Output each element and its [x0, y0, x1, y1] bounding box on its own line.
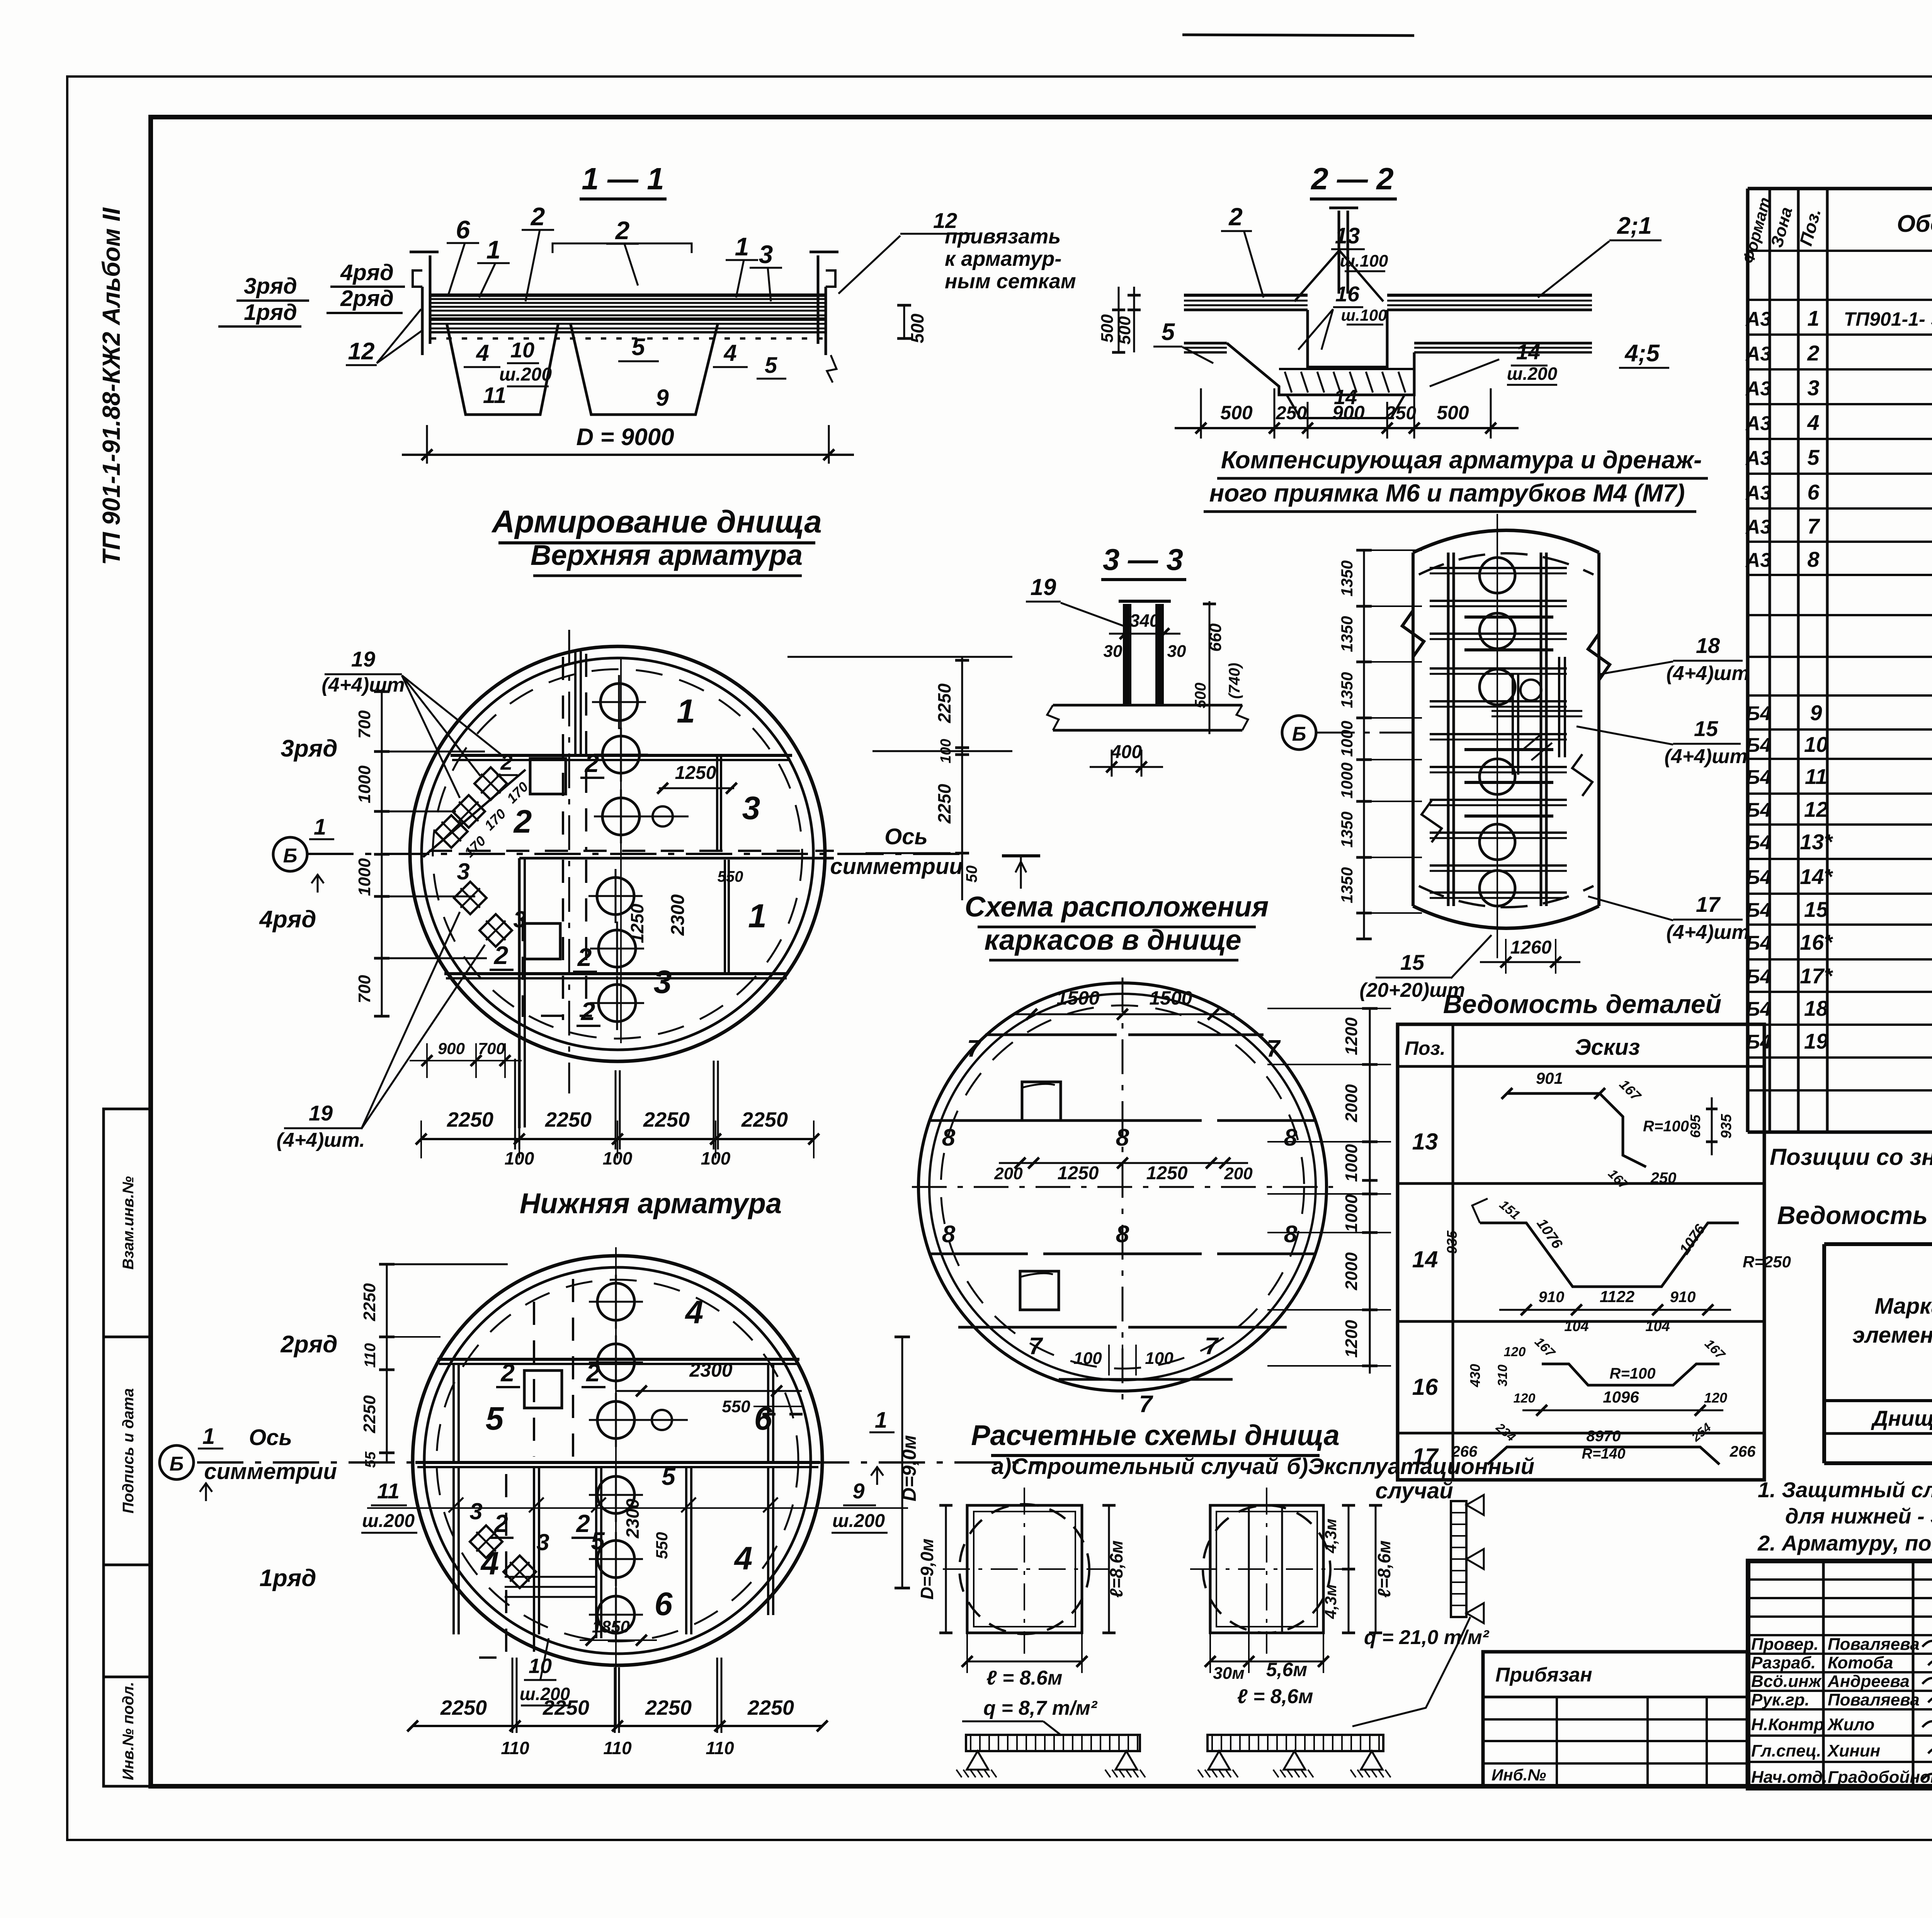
- svg-text:1500: 1500: [1149, 987, 1192, 1009]
- frame scheme bar bottom 7: [1059, 1378, 1233, 1381]
- svg-text:3: 3: [654, 964, 672, 1000]
- svg-text:550: 550: [718, 868, 743, 885]
- svg-text:1850: 1850: [592, 1617, 630, 1636]
- svg-text:q = 21,0 т/м²: q = 21,0 т/м²: [1364, 1626, 1490, 1649]
- svg-text:А3: А3: [1745, 412, 1772, 435]
- svg-text:2: 2: [1228, 203, 1243, 231]
- svg-text:1350: 1350: [1338, 867, 1356, 903]
- svg-text:10: 10: [510, 338, 534, 362]
- svg-text:910: 910: [1670, 1289, 1696, 1306]
- svg-text:R=100: R=100: [1610, 1365, 1656, 1382]
- svg-text:901: 901: [1536, 1069, 1563, 1087]
- svg-text:12: 12: [1804, 797, 1828, 821]
- svg-text:1. Защитный слой бетона для: 1. Защитный слой бетона для верхней арма…: [1758, 1478, 1932, 1502]
- upper plan left dim chain: [381, 692, 383, 1016]
- svg-text:2250: 2250: [543, 1696, 589, 1719]
- lower plan top chord double: [437, 1358, 799, 1361]
- svg-text:1: 1: [748, 898, 767, 935]
- svg-text:16: 16: [1412, 1374, 1438, 1400]
- frame scheme dashed circle: [941, 1005, 1304, 1369]
- svg-text:Б4: Б4: [1746, 766, 1771, 789]
- section 2-2 dims 500 250 900 250 500: [1200, 388, 1202, 439]
- design scheme a square: [967, 1505, 1082, 1633]
- svg-text:D=9,0м: D=9,0м: [898, 1435, 920, 1501]
- frame scheme outer circle: [918, 983, 1327, 1391]
- svg-text:Расчетные схемы днища: Расчетные схемы днища: [971, 1419, 1340, 1451]
- svg-text:ш.100: ш.100: [1341, 306, 1387, 324]
- svg-text:3ряд: 3ряд: [244, 274, 297, 299]
- svg-text:1122: 1122: [1600, 1287, 1634, 1306]
- svg-text:3: 3: [457, 859, 469, 884]
- section 1-1 diameter dimension: [426, 425, 428, 464]
- svg-text:Рук.гр.: Рук.гр.: [1751, 1690, 1810, 1709]
- signature squiggles: [1922, 1641, 1932, 1656]
- svg-text:2: 2: [530, 202, 545, 231]
- svg-text:500: 500: [1192, 683, 1209, 709]
- svg-text:19: 19: [1031, 574, 1056, 600]
- svg-text:10: 10: [529, 1654, 552, 1678]
- svg-text:9: 9: [1810, 701, 1822, 725]
- svg-text:4: 4: [685, 1294, 704, 1330]
- section 3-3 right dims: [1209, 601, 1211, 734]
- svg-text:Всö.инж: Всö.инж: [1751, 1672, 1822, 1691]
- svg-text:2: 2: [615, 216, 630, 245]
- svg-text:Ведомость деталей: Ведомость деталей: [1443, 990, 1721, 1019]
- svg-text:Жило: Жило: [1827, 1715, 1874, 1734]
- svg-text:(4+4)шт: (4+4)шт: [1666, 921, 1749, 944]
- lower plan inner circle: [424, 1267, 811, 1654]
- svg-text:18: 18: [1804, 996, 1828, 1020]
- svg-text:200: 200: [1224, 1164, 1253, 1183]
- svg-text:(4+4)шт: (4+4)шт: [1666, 662, 1749, 685]
- upper plan left vertical bars lower: [518, 858, 521, 1128]
- svg-text:16: 16: [1335, 282, 1360, 306]
- svg-text:11: 11: [483, 383, 506, 408]
- svg-text:Позиции со знаком: Позиции со знаком: [1770, 1144, 1932, 1170]
- svg-text:Б4: Б4: [1746, 702, 1771, 725]
- section 1-1 right wall: [825, 287, 827, 355]
- svg-text:8: 8: [942, 1124, 956, 1151]
- design scheme b beam: [1207, 1735, 1383, 1751]
- svg-text:14*: 14*: [1800, 864, 1833, 889]
- svg-text:55: 55: [362, 1451, 379, 1468]
- lower plan datum circle B: [160, 1445, 194, 1479]
- svg-text:8: 8: [1807, 547, 1820, 571]
- small tick mark above scheme title: [1002, 854, 1040, 857]
- frame scheme right dim chain: [1369, 1008, 1371, 1374]
- svg-text:500: 500: [907, 313, 927, 343]
- svg-text:Верхняя арматура: Верхняя арматура: [531, 539, 803, 571]
- svg-text:15: 15: [1694, 716, 1718, 741]
- svg-text:3: 3: [536, 1529, 549, 1555]
- svg-text:D = 9000: D = 9000: [576, 424, 674, 451]
- view B hole circles: [1480, 558, 1515, 593]
- svg-text:Ведомость расхода стали на эле: Ведомость расхода стали на элемент, кг: [1777, 1201, 1932, 1229]
- section 2-2 vertical post: [1338, 211, 1340, 294]
- svg-text:(4+4)шт: (4+4)шт: [1664, 745, 1747, 768]
- svg-text:2250: 2250: [545, 1108, 592, 1131]
- svg-text:660: 660: [1206, 623, 1225, 652]
- svg-text:Армирование днища: Армирование днища: [491, 504, 822, 539]
- svg-text:1250: 1250: [1058, 1163, 1099, 1183]
- upper plan diagonal frame cluster: [474, 767, 507, 800]
- svg-text:4: 4: [1807, 410, 1819, 435]
- svg-text:12: 12: [933, 208, 957, 233]
- svg-text:8970: 8970: [1587, 1428, 1621, 1445]
- svg-text:2250: 2250: [440, 1696, 487, 1719]
- svg-text:А3: А3: [1745, 308, 1772, 330]
- svg-text:Б4: Б4: [1746, 966, 1771, 988]
- svg-text:Ось: Ось: [884, 824, 928, 849]
- svg-text:17: 17: [1696, 892, 1721, 916]
- svg-text:Б4: Б4: [1746, 899, 1771, 922]
- svg-text:9: 9: [852, 1479, 864, 1503]
- svg-text:500: 500: [1437, 402, 1469, 423]
- svg-text:4ряд: 4ряд: [340, 260, 394, 285]
- svg-text:Б4: Б4: [1746, 998, 1771, 1020]
- svg-text:910: 910: [1539, 1289, 1565, 1306]
- view B horizontal rebar groups: [1430, 567, 1567, 569]
- svg-text:1350: 1350: [1338, 672, 1356, 708]
- svg-text:q = 8,7 т/м²: q = 8,7 т/м²: [983, 1697, 1098, 1719]
- lower plan small square: [524, 1370, 562, 1408]
- svg-text:110: 110: [706, 1738, 734, 1758]
- upper plan bottom extension lines: [514, 1059, 516, 1149]
- side ladder element: [1451, 1501, 1466, 1617]
- svg-text:а)Строительный случай: а)Строительный случай: [992, 1454, 1279, 1479]
- svg-text:4;5: 4;5: [1624, 340, 1660, 367]
- lower plan vertical bars above axis: [452, 1364, 455, 1462]
- svg-text:2;1: 2;1: [1617, 213, 1652, 239]
- design scheme a dims: [945, 1505, 947, 1633]
- svg-text:Б4: Б4: [1746, 831, 1771, 854]
- svg-text:Гл.спец.: Гл.спец.: [1751, 1741, 1821, 1760]
- svg-text:А3: А3: [1745, 377, 1772, 400]
- svg-text:каркасов в днище: каркасов в днище: [984, 924, 1241, 956]
- svg-text:500: 500: [1098, 314, 1117, 343]
- svg-text:8: 8: [1284, 1124, 1298, 1151]
- svg-text:Градобойнов: Градобойнов: [1828, 1768, 1932, 1787]
- design scheme a circle: [959, 1504, 1089, 1634]
- upper reinforcement plan outer circle: [410, 646, 825, 1061]
- svg-text:2250: 2250: [934, 683, 954, 723]
- svg-text:Поваляева: Поваляева: [1828, 1635, 1920, 1654]
- svg-text:550: 550: [722, 1397, 750, 1416]
- svg-text:Хинин: Хинин: [1827, 1741, 1880, 1760]
- svg-text:Б4: Б4: [1746, 866, 1771, 889]
- svg-text:1350: 1350: [1338, 560, 1356, 596]
- svg-text:2: 2: [500, 1359, 515, 1387]
- upper plan axis of symmetry line: [307, 853, 966, 855]
- svg-text:7: 7: [1807, 514, 1820, 538]
- svg-text:2300: 2300: [668, 894, 688, 936]
- svg-text:1: 1: [202, 1424, 215, 1449]
- view B outer shell top arc: [1413, 531, 1599, 553]
- svg-text:250: 250: [1385, 403, 1416, 423]
- svg-text:Компенсирующая арматура и др: Компенсирующая арматура и дренаж-: [1221, 446, 1702, 474]
- svg-text:935: 935: [1444, 1230, 1460, 1254]
- svg-text:430: 430: [1467, 1364, 1483, 1387]
- svg-text:ш.200: ш.200: [499, 364, 552, 385]
- svg-text:13*: 13*: [1800, 830, 1833, 854]
- svg-text:ш.200: ш.200: [362, 1511, 415, 1531]
- svg-text:2250: 2250: [643, 1108, 690, 1131]
- svg-text:Инв.№ подл.: Инв.№ подл.: [120, 1682, 137, 1780]
- svg-text:6: 6: [1807, 480, 1820, 504]
- svg-text:ного приямка М6 и патрубко: ного приямка М6 и патрубков М4 (М7): [1209, 479, 1685, 507]
- svg-text:1000: 1000: [1338, 721, 1356, 757]
- svg-text:1200: 1200: [1342, 1017, 1361, 1055]
- svg-text:100: 100: [603, 1148, 633, 1168]
- upper plan top vertical bars: [574, 651, 577, 757]
- svg-text:700: 700: [355, 710, 374, 739]
- svg-text:1: 1: [314, 814, 326, 840]
- section 3-3 top dims 30 340 30: [1109, 633, 1180, 635]
- svg-text:3: 3: [742, 790, 760, 826]
- svg-text:Обозначение: Обозначение: [1897, 211, 1932, 237]
- svg-text:2: 2: [576, 1510, 590, 1537]
- svg-text:1350: 1350: [1338, 616, 1356, 652]
- svg-text:15: 15: [1804, 897, 1828, 922]
- lower plan axis chord double: [415, 1461, 820, 1464]
- svg-text:8: 8: [942, 1221, 956, 1248]
- section 2-2 lower band: [1184, 342, 1227, 345]
- lower plan vertical stirrup bars below axis: [452, 1467, 455, 1634]
- svg-text:б)Эксплуатационный: б)Эксплуатационный: [1287, 1454, 1534, 1479]
- svg-text:4: 4: [723, 340, 736, 366]
- svg-text:11: 11: [377, 1479, 400, 1503]
- svg-text:1250: 1250: [1146, 1163, 1188, 1183]
- svg-text:2ряд: 2ряд: [340, 286, 394, 311]
- svg-text:13: 13: [1335, 223, 1360, 248]
- svg-text:Б: Б: [1292, 723, 1306, 745]
- svg-text:30м: 30м: [1213, 1664, 1245, 1683]
- frame scheme dim 100 100 bottom: [1108, 1345, 1110, 1376]
- design scheme b supports: [1208, 1751, 1230, 1770]
- svg-text:2250: 2250: [645, 1696, 692, 1719]
- lower plan diamonds: [470, 1525, 502, 1558]
- view B outer shell bottom arc: [1413, 906, 1599, 928]
- lower plan hole circles: [597, 1283, 634, 1320]
- svg-text:4,3м: 4,3м: [1321, 1584, 1340, 1619]
- svg-text:110: 110: [501, 1738, 529, 1758]
- title block outline: [1748, 1561, 1932, 1788]
- svg-text:1350: 1350: [1338, 811, 1356, 847]
- svg-text:120: 120: [1704, 1390, 1727, 1406]
- svg-text:1ряд: 1ряд: [244, 300, 297, 325]
- svg-text:Котоба: Котоба: [1828, 1653, 1893, 1672]
- svg-text:3: 3: [1807, 376, 1819, 400]
- svg-text:4: 4: [476, 340, 489, 366]
- svg-text:1500: 1500: [1056, 987, 1099, 1009]
- svg-text:1260: 1260: [1510, 937, 1552, 958]
- svg-text:Б4: Б4: [1746, 932, 1771, 954]
- svg-text:1: 1: [735, 232, 749, 261]
- svg-text:2: 2: [1807, 341, 1819, 365]
- svg-text:ℓ=8,6м: ℓ=8,6м: [1374, 1541, 1394, 1598]
- svg-text:100: 100: [1145, 1349, 1173, 1368]
- lower plan axis line: [197, 1461, 1043, 1464]
- svg-text:13: 13: [1412, 1129, 1438, 1155]
- svg-text:10: 10: [1804, 732, 1828, 757]
- svg-text:1000: 1000: [355, 858, 374, 896]
- svg-text:5: 5: [632, 334, 646, 360]
- svg-text:А3: А3: [1745, 482, 1772, 504]
- svg-text:5,6м: 5,6м: [1266, 1659, 1308, 1680]
- svg-text:Разраб.: Разраб.: [1751, 1653, 1816, 1672]
- svg-text:2. Арматуру, попадающую в при: 2. Арматуру, попадающую в приямки и патр…: [1757, 1531, 1932, 1555]
- svg-text:12: 12: [348, 338, 375, 365]
- svg-text:1000: 1000: [1338, 762, 1356, 798]
- design scheme a beam: [966, 1735, 1140, 1751]
- svg-text:5: 5: [1807, 445, 1820, 469]
- svg-text:2ряд: 2ряд: [280, 1331, 337, 1358]
- svg-text:2: 2: [580, 997, 595, 1025]
- section 1-1 pit trapezoid right: [570, 323, 718, 415]
- svg-text:R=100: R=100: [1643, 1118, 1689, 1135]
- svg-text:6: 6: [456, 215, 471, 244]
- svg-text:А3: А3: [1745, 516, 1772, 538]
- svg-text:310: 310: [1495, 1365, 1510, 1387]
- svg-text:элемента: элемента: [1852, 1323, 1932, 1348]
- svg-text:1000: 1000: [1342, 1144, 1361, 1182]
- svg-text:700: 700: [478, 1039, 505, 1058]
- scan artifact streaks: [1182, 35, 1414, 36]
- svg-text:Инб.№: Инб.№: [1492, 1766, 1546, 1784]
- frame scheme extension lines: [1267, 1008, 1391, 1009]
- svg-text:для нижней - 35 мм.: для нижней - 35 мм.: [1785, 1504, 1932, 1528]
- view B heavy bar bundles: [1464, 616, 1553, 619]
- svg-text:Нижняя арматура: Нижняя арматура: [520, 1187, 782, 1219]
- steel table grid: [1822, 1244, 1826, 1463]
- svg-text:2000: 2000: [1342, 1252, 1361, 1291]
- svg-text:104: 104: [1564, 1318, 1588, 1335]
- svg-text:5: 5: [662, 1462, 676, 1490]
- svg-text:случай: случай: [1375, 1478, 1453, 1503]
- svg-text:1: 1: [875, 1408, 887, 1433]
- upper plan dim 1250 upper: [659, 787, 734, 789]
- frame scheme horizontal bars row 7 top: [985, 1034, 1117, 1036]
- svg-text:30: 30: [1104, 642, 1122, 661]
- svg-text:2: 2: [500, 750, 512, 774]
- design scheme b square: [1210, 1505, 1323, 1633]
- section 2-2 pit profile: [1227, 343, 1414, 395]
- lower plan bottom dim chain: [413, 1725, 822, 1727]
- svg-text:R=250: R=250: [1743, 1253, 1791, 1271]
- svg-text:2300: 2300: [689, 1359, 732, 1381]
- upper plan dashed inner circle: [433, 669, 802, 1039]
- svg-text:11: 11: [1805, 764, 1827, 789]
- svg-text:9: 9: [656, 385, 669, 411]
- lower plan stirrup tick marks: [449, 1498, 463, 1512]
- svg-text:Б4: Б4: [1746, 734, 1771, 757]
- svg-text:100: 100: [505, 1148, 534, 1168]
- section 1-1 pit trapezoid left: [447, 323, 558, 415]
- specification table grid: [1746, 189, 1750, 1132]
- section 2-2 bottom pit trapezoid: [1287, 395, 1405, 418]
- view B extra frame cluster: [1558, 657, 1560, 757]
- svg-text:266: 266: [1730, 1443, 1756, 1460]
- right side vertical dim 500: [903, 305, 905, 338]
- svg-text:100: 100: [1073, 1349, 1102, 1368]
- design scheme b dims: [1348, 1505, 1350, 1633]
- svg-text:1ряд: 1ряд: [259, 1565, 316, 1592]
- lower plan bottom extension lines: [512, 1658, 514, 1733]
- left margin strip table: [104, 1109, 151, 1786]
- lower plan center vertical line: [615, 1247, 617, 1726]
- design scheme b circle: [1203, 1505, 1330, 1633]
- svg-text:Эскиз: Эскиз: [1575, 1035, 1640, 1060]
- svg-text:Ось: Ось: [249, 1425, 292, 1450]
- upper plan bottom chord double: [444, 972, 788, 975]
- svg-text:ш.100: ш.100: [1340, 252, 1388, 270]
- view B inner vertical rails: [1447, 553, 1450, 906]
- svg-text:Н.Контр: Н.Контр: [1751, 1715, 1824, 1734]
- svg-text:3: 3: [469, 1498, 482, 1524]
- svg-text:18: 18: [1696, 633, 1720, 658]
- svg-text:2250: 2250: [447, 1108, 493, 1131]
- svg-text:(4+4)шт: (4+4)шт: [321, 674, 405, 696]
- svg-text:Марка: Марка: [1874, 1294, 1932, 1319]
- svg-text:19: 19: [351, 647, 375, 671]
- svg-text:5: 5: [486, 1400, 504, 1437]
- svg-text:110: 110: [603, 1738, 632, 1758]
- svg-text:250: 250: [1650, 1170, 1677, 1187]
- frame scheme dim 1500 1500: [1012, 1013, 1235, 1015]
- lower plan outer circle: [413, 1256, 822, 1665]
- view B dim 1260: [1505, 939, 1507, 974]
- svg-text:ш.200: ш.200: [832, 1511, 885, 1531]
- section 2-2 left vertical dims: [1133, 287, 1135, 352]
- svg-text:935: 935: [1718, 1114, 1735, 1138]
- svg-text:Провер.: Провер.: [1751, 1635, 1818, 1654]
- svg-text:3ряд: 3ряд: [281, 735, 337, 762]
- svg-text:Прибязан: Прибязан: [1495, 1664, 1592, 1686]
- svg-text:900: 900: [438, 1039, 465, 1058]
- svg-text:17*: 17*: [1800, 964, 1833, 988]
- svg-text:8: 8: [1284, 1221, 1298, 1248]
- svg-text:1000: 1000: [1342, 1194, 1361, 1232]
- svg-text:5: 5: [1162, 319, 1175, 345]
- svg-text:Нач.отд.: Нач.отд.: [1751, 1768, 1827, 1787]
- frame scheme bars row 7 lower: [958, 1326, 1117, 1329]
- svg-text:30: 30: [1167, 642, 1186, 661]
- svg-text:50: 50: [963, 865, 980, 883]
- svg-text:симметрии: симметрии: [204, 1459, 337, 1484]
- svg-text:14: 14: [1412, 1246, 1438, 1272]
- view B left dim chain: [1363, 550, 1365, 939]
- svg-text:550: 550: [653, 1532, 671, 1559]
- svg-text:ТП 901-1-91.88-КЖ2 Альбом II: ТП 901-1-91.88-КЖ2 Альбом II: [97, 207, 125, 565]
- svg-text:120: 120: [1504, 1345, 1526, 1359]
- svg-text:Б: Б: [283, 845, 298, 867]
- section 3-3 wall column: [1123, 604, 1131, 705]
- svg-text:1200: 1200: [1342, 1320, 1361, 1358]
- svg-text:4,3м: 4,3м: [1321, 1518, 1340, 1553]
- svg-text:2250: 2250: [360, 1283, 379, 1321]
- svg-text:5: 5: [765, 353, 777, 378]
- svg-text:симметрии: симметрии: [830, 854, 963, 879]
- svg-text:110: 110: [362, 1343, 379, 1368]
- svg-text:Взам.инв.№: Взам.инв.№: [120, 1176, 137, 1270]
- view B side walls with breaks: [1402, 553, 1424, 906]
- svg-text:695: 695: [1687, 1114, 1703, 1138]
- upper plan top chord double: [451, 754, 792, 757]
- svg-text:8: 8: [1116, 1124, 1129, 1151]
- svg-text:250: 250: [1276, 403, 1307, 423]
- svg-text:2 — 2: 2 — 2: [1310, 162, 1393, 196]
- section 3-3 dim 400: [1111, 750, 1113, 777]
